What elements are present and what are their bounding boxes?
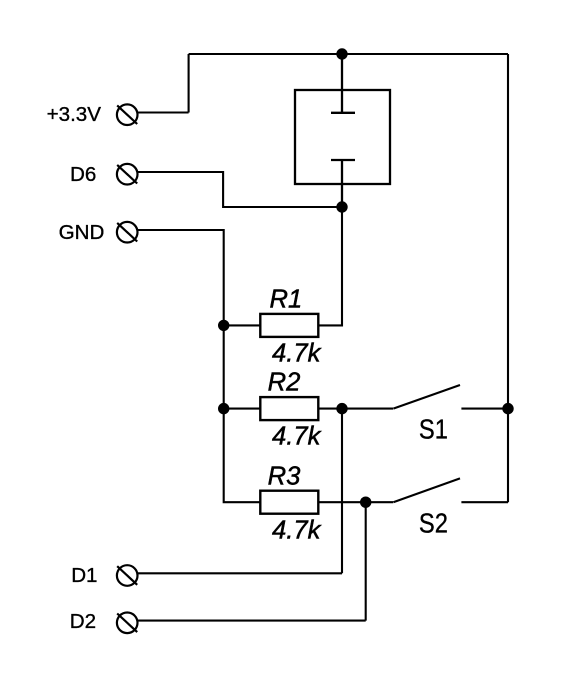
svg-text:GND: GND xyxy=(59,221,105,244)
node D6/R1 junction xyxy=(336,201,347,212)
svg-text:R3: R3 xyxy=(268,463,301,491)
svg-text:4.7k: 4.7k xyxy=(272,516,322,544)
touch sensor SW body xyxy=(295,90,390,184)
wire +3.3V lead xyxy=(138,111,189,113)
terminal GND xyxy=(117,222,138,243)
svg-text:R1: R1 xyxy=(270,286,303,314)
wire top rail xyxy=(189,53,508,55)
svg-text:S1: S1 xyxy=(419,413,448,444)
node top-rail junction xyxy=(336,48,347,59)
wire D2 lead xyxy=(138,620,366,622)
svg-text:D1: D1 xyxy=(71,564,97,587)
resistor R1 xyxy=(224,207,342,337)
wire D1 riser xyxy=(341,409,343,574)
terminal D6 xyxy=(117,164,138,185)
terminal D2 xyxy=(117,613,138,634)
switch S2 xyxy=(393,478,508,502)
svg-text:+3.3V: +3.3V xyxy=(47,103,102,126)
svg-text:R2: R2 xyxy=(268,369,301,397)
terminal +3.3V xyxy=(117,104,138,125)
node R3/D2/S2 junction xyxy=(360,497,371,508)
wire D2 riser xyxy=(365,502,367,620)
wire D6 lead xyxy=(138,172,342,207)
touch sensor bottom contact xyxy=(331,160,355,207)
node rail/R2 junction xyxy=(218,403,229,414)
wire top-left drop xyxy=(188,54,190,113)
node S1/right-rail junction xyxy=(502,403,513,414)
resistor R3 xyxy=(260,491,393,514)
touch sensor top contact xyxy=(331,54,355,113)
wire GND lead and left rail xyxy=(138,230,261,502)
svg-text:S2: S2 xyxy=(419,507,448,538)
svg-text:D2: D2 xyxy=(70,610,96,633)
wire D1 lead xyxy=(138,572,342,574)
svg-text:4.7k: 4.7k xyxy=(272,339,322,367)
switch S1 xyxy=(393,385,508,409)
svg-text:D6: D6 xyxy=(70,163,96,186)
node rail/R1 junction xyxy=(218,320,229,331)
resistor R2 xyxy=(224,397,393,420)
node R2/D1/S1 junction xyxy=(336,403,347,414)
terminal D1 xyxy=(117,565,138,586)
svg-text:4.7k: 4.7k xyxy=(272,422,322,450)
wire right rail xyxy=(507,54,509,502)
